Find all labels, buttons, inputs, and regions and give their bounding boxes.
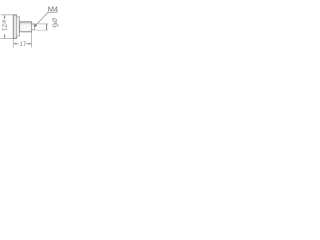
extension line stud bottom	[35, 29, 49, 31]
dimension line 17 right segment	[26, 43, 32, 45]
extension line 17 left	[12, 39, 14, 48]
extension line bottom left (flange bottom dia)	[1, 37, 17, 39]
extension line stud top	[35, 23, 49, 25]
arrowhead down (left dim)	[4, 35, 6, 38]
extension line 17 right	[31, 32, 33, 48]
body cylinder	[20, 22, 32, 32]
leader line to M4	[35, 12, 48, 25]
dimension line 17 left segment	[13, 43, 18, 45]
extension line top left (flange top dia)	[1, 14, 17, 16]
arrowhead up (left dim)	[4, 15, 6, 18]
arrowhead down (stud dim)	[46, 28, 48, 30]
arrowhead right (17)	[29, 43, 32, 45]
flange disc	[13, 15, 16, 38]
svg-text:⌀6: ⌀6	[51, 18, 60, 28]
collar section	[16, 17, 19, 36]
dimension line stud dia	[46, 24, 48, 30]
leader arrowhead	[34, 24, 37, 27]
leader underline	[47, 11, 57, 13]
stud M4	[32, 24, 35, 30]
dimension line left vertical	[4, 15, 6, 19]
arrowhead left (17)	[13, 43, 16, 45]
svg-text:⌀21: ⌀21	[0, 20, 7, 32]
svg-text:M4: M4	[48, 4, 58, 13]
arrowhead up (stud dim)	[46, 24, 48, 26]
svg-text:17: 17	[20, 42, 27, 48]
